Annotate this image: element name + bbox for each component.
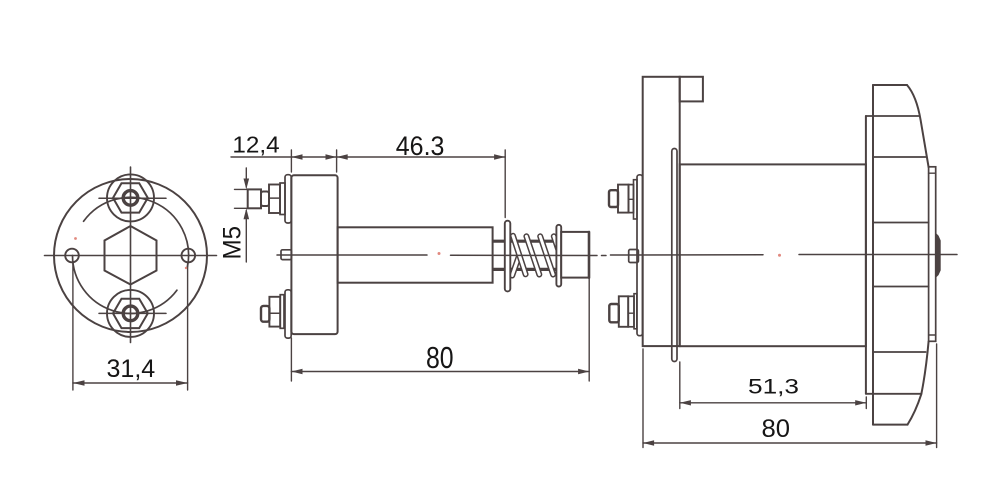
bottom bolt R washer xyxy=(634,294,637,329)
washer xyxy=(280,183,285,215)
dim 51,3 xyxy=(680,402,867,404)
red dot 3 xyxy=(438,252,441,255)
arrow 46.3 right xyxy=(494,154,505,159)
nut facet xyxy=(269,312,280,314)
ext right xyxy=(865,397,867,409)
M5 ext bottom xyxy=(235,207,249,209)
centerline right seg2 xyxy=(799,254,957,256)
arrow right xyxy=(578,369,589,374)
flange ring line xyxy=(865,116,867,394)
svg-text:80: 80 xyxy=(762,415,791,443)
dim 31,4 arrow right xyxy=(176,380,188,386)
chord 2 xyxy=(873,156,926,158)
center hexagon xyxy=(105,226,157,285)
svg-text:51,3: 51,3 xyxy=(748,376,799,399)
nut xyxy=(269,185,280,214)
bracket plate xyxy=(643,77,680,346)
hook xyxy=(680,77,703,102)
centerline middle seg2 xyxy=(451,254,598,256)
ext left xyxy=(642,349,644,448)
spring coil 1 xyxy=(513,236,526,274)
head cap xyxy=(261,306,269,322)
arrow 12,4 right xyxy=(326,154,337,159)
pin xyxy=(629,250,639,263)
spring coil 2 xyxy=(526,236,539,274)
top bolt R block xyxy=(618,185,629,213)
red dot 2 xyxy=(185,267,187,269)
dim 31,4 ext right xyxy=(187,263,189,390)
centerline middle seg1 xyxy=(277,254,427,256)
dim 31,4 arrow left xyxy=(73,380,85,386)
top bolt R facet xyxy=(629,198,634,200)
top bolt R block2 xyxy=(629,185,634,213)
shaft xyxy=(338,227,493,282)
ext left xyxy=(679,362,681,409)
svg-text:46.3: 46.3 xyxy=(396,131,445,161)
bottom nut hexagon xyxy=(113,299,148,328)
pin on flange xyxy=(281,250,291,260)
ext flange right xyxy=(336,150,338,172)
face plate tick bottom xyxy=(929,334,936,336)
rod bottom edge xyxy=(493,268,557,271)
end cap right edge thick xyxy=(588,232,591,278)
M5 arrow line bottom xyxy=(245,211,247,262)
hole left xyxy=(65,249,79,263)
spring coil 4 xyxy=(554,236,567,274)
plate xyxy=(285,175,291,223)
insulator plate xyxy=(637,175,643,336)
nut facet xyxy=(269,197,280,199)
arrow right xyxy=(926,440,937,445)
chord 1 xyxy=(866,115,919,117)
rod top edge xyxy=(493,240,557,243)
ext flange left xyxy=(290,150,292,172)
top nut hexagon xyxy=(113,183,148,212)
bottom bolt R block2 xyxy=(628,296,634,327)
stud xyxy=(248,189,261,208)
arrow right xyxy=(855,400,866,405)
dim 31,4 ext left xyxy=(72,263,74,390)
nut xyxy=(269,297,280,327)
chord 6 xyxy=(866,393,922,395)
cap curve top xyxy=(907,85,929,167)
hole right xyxy=(182,249,196,263)
dim 31,4 line xyxy=(73,382,188,384)
top bolt R washer xyxy=(634,180,638,219)
svg-text:80: 80 xyxy=(426,341,454,375)
face plate xyxy=(929,167,936,341)
flange plate xyxy=(291,175,337,334)
bolt circle arc upper xyxy=(84,197,189,267)
front strip xyxy=(672,149,677,362)
red dot 1 xyxy=(74,237,77,240)
spring back winding sliver xyxy=(512,256,519,276)
M5 arrow line top xyxy=(245,168,247,187)
dim 12,4 / 46.3 line xyxy=(231,156,505,158)
top nut circle xyxy=(107,174,154,221)
bottom bolt R head xyxy=(609,304,619,322)
bottom nut circle xyxy=(107,290,154,337)
arrow 46.3 left xyxy=(337,154,348,159)
top nut centerline xyxy=(99,197,166,199)
spring seat washer 2 xyxy=(556,225,561,287)
top bolt R head xyxy=(609,190,618,207)
centerline dash xyxy=(602,255,607,257)
svg-text:M5: M5 xyxy=(219,226,247,260)
face plate tick top xyxy=(929,172,936,174)
cap curve bottom xyxy=(908,341,929,424)
chord 3 xyxy=(873,222,929,224)
centerline horizontal xyxy=(45,255,217,257)
spring seat washer 1 xyxy=(505,221,511,292)
washer xyxy=(280,295,284,329)
spring coil 3 xyxy=(540,236,553,274)
ext washer xyxy=(504,150,506,218)
bottom nut ring xyxy=(123,306,138,321)
M5 ext top xyxy=(235,188,249,190)
arrow left xyxy=(680,400,691,405)
collar xyxy=(261,192,269,207)
arrow 12,4 left xyxy=(291,154,302,159)
bottom bolt R block xyxy=(619,296,628,327)
bottom bolt R facet xyxy=(628,312,634,314)
red dot 4 xyxy=(778,254,781,257)
top nut ring xyxy=(123,191,138,206)
chord 5 xyxy=(873,351,926,353)
end cap xyxy=(561,232,589,278)
svg-text:12,4: 12,4 xyxy=(232,131,280,157)
bottom nut centerline xyxy=(99,312,166,314)
chord 4 xyxy=(873,286,929,288)
cap left edge xyxy=(872,85,874,425)
plate xyxy=(285,290,291,338)
arrow left xyxy=(643,440,654,445)
centerline vertical xyxy=(130,167,132,343)
nub xyxy=(936,233,941,277)
svg-text:31,4: 31,4 xyxy=(107,355,156,383)
cap bottom edge xyxy=(873,424,908,426)
dim 80 mid line xyxy=(291,371,589,373)
cap top edge xyxy=(873,84,907,86)
bolt circle arc lower xyxy=(73,256,177,314)
ext right xyxy=(588,279,590,381)
outer circle xyxy=(54,179,207,332)
body cylinder xyxy=(680,164,866,346)
ext left xyxy=(290,338,292,381)
dim 80 right xyxy=(643,442,937,444)
arrow left xyxy=(291,369,302,374)
ext right xyxy=(936,344,938,448)
centerline right seg1 xyxy=(611,254,764,256)
